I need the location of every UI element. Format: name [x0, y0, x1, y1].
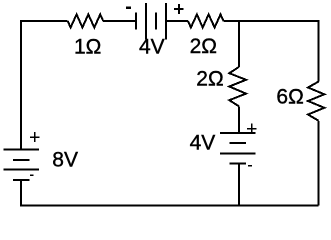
battery B1 long plate 2 (positive terminal) [165, 3, 167, 39]
svg-text:4V: 4V [190, 131, 216, 154]
resistor R2 2ohm (horizontal zigzag, top) [188, 14, 224, 27]
wire: R1 to 4V battery negative plate [103, 20, 136, 22]
battery B3 short plate 1 [13, 159, 30, 161]
resistor R1 1ohm (horizontal zigzag, top-left) [68, 14, 104, 27]
wire: 6ohm resistor down right side to bottom-right corner [318, 121, 320, 206]
battery B3 8V (left, vertical): long plate 1 (positive terminal) [4, 149, 39, 151]
plus sign of battery B1 [174, 4, 184, 14]
resistor R3 2ohm (vertical zigzag, middle) [229, 67, 246, 106]
plus sign of battery B3 [30, 132, 40, 142]
svg-text:2Ω: 2Ω [196, 68, 223, 91]
battery B2 4V (bottom middle, vertical): long plate 1 (positive terminal) [220, 132, 255, 134]
resistor R4 6ohm (vertical zigzag, right) [308, 82, 324, 121]
battery B1 4V (top, horizontal): short plate 1 (negative terminal) [135, 12, 137, 29]
svg-text:6Ω: 6Ω [276, 86, 303, 109]
wire: 4V battery positive plate to R2 [166, 20, 188, 22]
minus sign of battery B1 [126, 7, 131, 9]
svg-text:8V: 8V [52, 148, 78, 171]
battery B1 short plate 2 [155, 12, 157, 29]
svg-text:4V: 4V [139, 35, 165, 58]
battery B2 short plate 2 (negative terminal) [229, 163, 246, 165]
node A junction: wire down from top wire to R3 [238, 21, 240, 67]
svg-text:1Ω: 1Ω [74, 36, 101, 59]
battery B3 long plate 2 [4, 169, 39, 171]
minus sign of battery B3 [30, 174, 33, 176]
wire: battery B2 negative plate down to bottom wire [238, 164, 240, 206]
battery B1 long plate 1 [145, 3, 147, 39]
wire: R3 to 4V battery B2 positive plate [238, 106, 240, 133]
wire: bottom wire from 8V negative plate across to bottom-right corner [21, 180, 319, 206]
battery B3 short plate 2 (negative terminal) [13, 179, 30, 181]
battery B2 short plate 1 [229, 142, 246, 144]
wire: R2 across node A to top-right corner and down to 6ohm resistor [224, 21, 319, 82]
plus sign of battery B2 [247, 124, 257, 134]
svg-text:2Ω: 2Ω [190, 35, 217, 58]
battery B2 long plate 2 [220, 153, 255, 155]
minus sign of battery B2 [248, 165, 252, 167]
wire: left branch, from 8V positive plate up and across top-left corner to R1 [21, 21, 68, 150]
